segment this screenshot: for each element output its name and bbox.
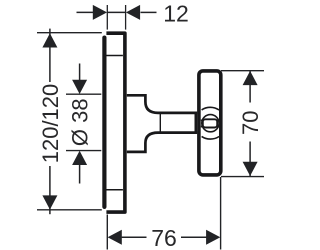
svg-text:70: 70 bbox=[238, 111, 263, 135]
svg-text:12: 12 bbox=[163, 0, 189, 26]
svg-text:Ø 38: Ø 38 bbox=[68, 98, 93, 146]
svg-text:120/120: 120/120 bbox=[38, 84, 63, 164]
svg-text:76: 76 bbox=[151, 225, 177, 250]
